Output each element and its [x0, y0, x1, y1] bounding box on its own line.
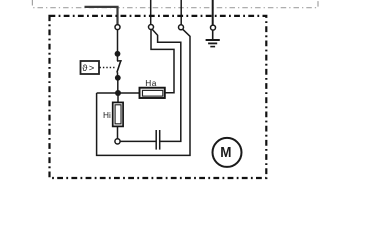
thermal sensor box (ϑ>): [81, 61, 100, 74]
wire supply drop to terminal T4 (ground lead): [212, 0, 214, 25]
svg-text:ϑ>: ϑ>: [82, 63, 95, 74]
wire T2 diagonal branch down to capacitor: [152, 29, 181, 141]
wire switch to node A: [117, 78, 119, 93]
bus line L (dash-dot supply bus): [32, 0, 318, 8]
svg-text:Hi: Hi: [103, 110, 111, 120]
terminal T2: [149, 25, 154, 30]
svg-text:M: M: [220, 144, 231, 161]
wire Hi bottom to terminal circle: [117, 127, 119, 139]
terminal T4: [211, 25, 216, 30]
wire outer loop from terminal T3 to node A: [97, 29, 190, 155]
enclosure boundary (dash-dot box): [50, 16, 267, 178]
svg-text:Ha: Ha: [145, 78, 157, 88]
wire capacitor to open terminal below Hi: [120, 140, 156, 142]
open terminal circle below Hi: [115, 139, 120, 144]
ground: [206, 30, 220, 46]
terminal T3: [179, 25, 184, 30]
wire supply drop to terminal T3: [180, 0, 182, 25]
wire node A horizontal (to Ha left / outer loop): [97, 92, 141, 94]
wire Ha right side up to terminal T2: [151, 30, 174, 93]
node junction dot 2: [115, 75, 121, 81]
node A junction dot 3: [115, 90, 121, 96]
resistor Hi: [113, 102, 123, 126]
wire T1 to switch: [117, 30, 119, 54]
control link (dotted) from sensor to switch: [100, 67, 117, 69]
capacitor C1: [156, 130, 160, 150]
node junction dot 1: [115, 51, 121, 57]
thermal switch contact: [117, 54, 122, 78]
wire feeder from bus to terminal T1: [85, 7, 118, 25]
resistor Ha: [140, 88, 165, 98]
wire node A down to Hi top: [117, 93, 119, 102]
terminal T1: [115, 25, 120, 30]
motor M1: [213, 138, 242, 167]
wire supply drop to terminal T2: [150, 0, 152, 24]
